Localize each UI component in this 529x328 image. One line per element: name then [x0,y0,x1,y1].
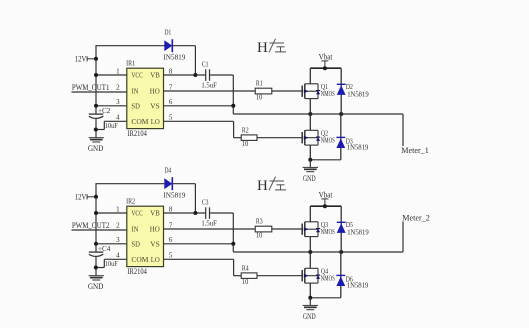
svg-text:GND: GND [88,281,104,291]
svg-text:NMOS: NMOS [321,228,335,236]
svg-text:SD: SD [131,102,140,111]
wire C3 to VS node [232,213,234,252]
label D4 value IN5819 [163,191,185,200]
diode D3 schottky low [336,114,345,160]
pin names IR1 [131,71,160,126]
svg-text:1N5819: 1N5819 [347,90,369,99]
node VS junction [231,242,235,246]
svg-text:R2: R2 [242,127,249,135]
label +C4 [98,244,111,253]
node output-left junction [308,250,312,254]
label Q2 NMOS [321,137,335,145]
svg-text:PWM_OUT2: PWM_OUT2 [72,220,110,230]
label D1 value IN5819 [163,53,185,62]
svg-text:1N5819: 1N5819 [347,143,369,152]
svg-text:C3: C3 [202,198,209,206]
port 12V (circuit 2) [75,191,96,201]
svg-text:IR1: IR1 [126,59,135,68]
svg-text:12V: 12V [75,191,87,201]
node SD junction [94,242,98,246]
label R1 value 10 [256,92,263,101]
title H-bridge section 1 [257,39,286,56]
svg-text:6: 6 [169,236,173,244]
wire half-bridge output node [233,113,403,115]
resistor R2 [241,135,257,141]
svg-text:Vbat: Vbat [319,53,333,62]
svg-text:IN: IN [131,87,139,96]
svg-text:6: 6 [169,98,173,106]
wire top bootstrap run to D4 [95,184,195,213]
ground GND (right, circuit 2) [303,298,318,321]
node COM/C junction [94,266,98,270]
power Vbat rail [310,67,341,69]
label D5 designator [346,221,353,229]
wire Q3 drain lead [309,206,311,222]
svg-text:2: 2 [116,221,120,229]
node 12V junction [94,57,98,61]
label IR1 part IR2104 [127,129,146,138]
wire VB pin 8 to C1 [164,74,234,76]
net label PWM_OUT2 [72,220,110,230]
svg-text:3: 3 [116,236,120,244]
svg-text:8: 8 [169,67,173,75]
label Q2 designator [321,130,329,138]
capacitor C4 plates [89,252,104,256]
wire Q1 source lead [309,99,311,114]
wire half-bridge output node [233,251,403,253]
node Vbat junction [323,66,327,70]
label Q3 designator [321,221,329,229]
label R2 value 10 [242,139,249,148]
label Q4 designator [321,268,329,276]
wire VCC pin 1 (IR2) [96,212,127,214]
label R4 value 10 [242,277,249,286]
capacitor C1 plates [206,69,210,81]
svg-text:IN5819: IN5819 [163,191,185,200]
label R1 designator [256,80,263,88]
op-amp driver IR2 IR2104 body [127,206,164,266]
svg-text:7: 7 [169,221,173,229]
node VCC junction [94,211,98,215]
svg-text:NMOS: NMOS [321,275,335,283]
svg-text:Meter_1: Meter_1 [401,146,429,155]
power Vbat rail [310,205,341,207]
node Vbat junction [323,204,327,208]
svg-text:R1: R1 [256,80,263,88]
svg-text:2: 2 [116,83,120,91]
svg-text:IR2104: IR2104 [127,267,146,276]
svg-text:VS: VS [150,102,160,111]
diode D5 schottky high [337,206,346,252]
label Q1 NMOS [321,90,335,98]
node VS junction [231,104,235,108]
label D5 value 1N5819 [347,228,369,237]
port Vbat [319,53,333,69]
label D3 designator [346,138,353,146]
svg-text:VS: VS [150,240,160,249]
svg-text:+C2: +C2 [98,106,111,115]
svg-text:4: 4 [116,114,120,122]
wire SD pin 3 [96,243,127,245]
svg-text:Vbat: Vbat [319,191,333,200]
label D1 designator [165,28,172,36]
wire VS pin 6 [164,243,234,245]
svg-text:LO: LO [151,255,161,264]
wire top bootstrap run to D1 [95,46,195,75]
wire VCC pin 1 (IR1) [96,74,127,76]
ground GND (left, circuit 2) [88,276,104,291]
pin numbers IR2 [116,205,173,259]
svg-text:VCC: VCC [131,209,143,218]
svg-text:D1: D1 [165,28,172,36]
transistor Q1 NMOS high-side [302,84,320,99]
label C1 value 1.5uF [201,81,217,90]
label C1 designator [202,60,209,68]
svg-text:+C4: +C4 [98,244,111,253]
label C3 designator [202,198,209,206]
wire SD pin 3 [96,105,127,107]
capacitor C3 plates [206,207,210,219]
svg-text:IR2: IR2 [126,197,135,206]
svg-text:H: H [257,178,268,194]
node COM/C junction [94,128,98,132]
diode D1 schottky bootstrap [164,39,172,52]
wire LO pin 5 route [164,121,242,137]
label Q1 designator [321,83,329,91]
label D2 value 1N5819 [347,90,369,99]
label D3 value 1N5819 [347,143,369,152]
label R3 value 10 [256,230,263,239]
diode D6 schottky low [336,252,345,298]
svg-text:10: 10 [256,230,263,239]
wire HO pin 7 to R1 [164,90,256,92]
wire IN pin 2 net PWM_OUT2 [72,229,127,231]
resistor R4 [241,273,257,279]
svg-text:10: 10 [256,92,263,101]
svg-text:10: 10 [242,139,249,148]
svg-text:SD: SD [131,240,140,249]
wire HO pin 7 to R3 [164,228,256,230]
label R3 designator [256,218,263,226]
label +C2 [98,106,111,115]
svg-text:Meter_2: Meter_2 [402,214,430,223]
svg-text:IR2104: IR2104 [127,129,146,138]
wire Q3 source lead [309,237,311,252]
node SD junction [94,104,98,108]
svg-text:C1: C1 [202,60,209,68]
net label PWM_OUT1 [72,82,110,92]
pin names IR2 [131,209,160,264]
svg-text:5: 5 [169,114,173,122]
resistor R3 [255,226,272,232]
node bootstrap junction [193,211,197,215]
svg-text:1N5819: 1N5819 [347,228,369,237]
svg-text:IN: IN [131,225,139,234]
svg-text:GND: GND [88,143,104,153]
wire C1 to VS node [232,75,234,114]
svg-text:10: 10 [242,277,249,286]
node output-right junction [339,250,343,254]
svg-text:NMOS: NMOS [321,90,335,98]
diode D4 schottky bootstrap [164,177,172,190]
wire 12V rail vertical (circuit 2) [95,184,97,276]
label D6 value 1N5819 [347,281,369,290]
label IR2 part IR2104 [127,267,146,276]
port 12V (circuit 1) [75,53,96,63]
label C3 value 1.5uF [201,219,217,228]
net label Meter_2 [402,214,430,223]
wire Q4 drain lead [309,252,311,268]
wire VB pin 8 to C3 [164,212,234,214]
label IR1 designator [126,59,135,68]
wire Q2 source lead [309,145,311,160]
wire COM pin 4 route [96,259,127,267]
svg-text:VCC: VCC [131,71,143,80]
label C2 value 10uF [105,121,119,130]
svg-text:R3: R3 [256,218,263,226]
svg-text:12V: 12V [75,53,87,63]
diode D2 schottky high [337,68,346,114]
wire Meter_2 stub [402,222,404,253]
svg-text:COM: COM [131,255,148,264]
node output-right junction [339,112,343,116]
ground GND (right, circuit 1) [303,160,318,183]
pin numbers IR1 [116,67,173,121]
svg-text:1N5819: 1N5819 [347,281,369,290]
wire Q4 source lead [309,283,311,298]
wire Q1 drain lead [309,68,311,84]
wire Q2 drain lead [309,114,311,130]
svg-text:NMOS: NMOS [321,137,335,145]
wire Meter_1 stub [402,114,404,146]
wire LO pin 5 route [164,259,242,275]
svg-text:HO: HO [150,87,161,96]
wire R4 to Q4 gate [257,275,302,277]
wire R2 to Q2 gate [257,137,302,139]
label R2 designator [242,127,249,135]
node output-left junction [308,112,312,116]
node source rail junction [308,158,312,162]
label C4 value 10uF [105,259,119,268]
svg-text:COM: COM [131,117,148,126]
label D4 designator [165,166,172,174]
svg-text:VB: VB [150,71,160,80]
port Vbat [319,191,333,207]
label D2 designator [346,83,353,91]
svg-text:7: 7 [169,83,173,91]
svg-text:GND: GND [303,312,316,321]
label Q4 NMOS [321,275,335,283]
node VCC junction [94,73,98,77]
wire VS pin 6 [164,105,234,107]
svg-text:10uF: 10uF [105,121,119,130]
svg-text:PWM_OUT1: PWM_OUT1 [72,82,110,92]
wire R3 to Q3 gate [272,228,303,230]
svg-text:1: 1 [116,205,120,213]
capacitor C2 plates [89,114,104,118]
op-amp driver IR1 IR2104 body [127,68,164,128]
node bootstrap junction [193,73,197,77]
svg-text:D4: D4 [165,166,172,174]
node 12V junction [94,195,98,199]
svg-text:R4: R4 [242,265,249,273]
label Q3 NMOS [321,228,335,236]
wire low-side source rail [310,297,341,299]
label IR2 designator [126,197,135,206]
svg-text:5: 5 [169,252,173,260]
title H-bridge section 2 [257,177,286,194]
svg-text:1.5uF: 1.5uF [201,81,217,90]
wire 12V rail vertical (circuit 1) [95,46,97,138]
svg-text:LO: LO [151,117,161,126]
transistor Q2 NMOS low-side [302,130,320,145]
svg-text:1: 1 [116,67,120,75]
transistor Q3 NMOS high-side [302,222,320,237]
wire low-side source rail [310,159,341,161]
wire R1 to Q1 gate [272,90,303,92]
svg-text:1.5uF: 1.5uF [201,219,217,228]
svg-text:VB: VB [150,209,160,218]
wire COM pin 4 route [96,121,127,129]
svg-text:HO: HO [150,225,161,234]
wire IN pin 2 net PWM_OUT1 [72,91,127,93]
node source rail junction [308,296,312,300]
svg-text:8: 8 [169,205,173,213]
svg-text:IN5819: IN5819 [163,53,185,62]
transistor Q4 NMOS low-side [302,268,320,283]
svg-text:10uF: 10uF [105,259,119,268]
svg-text:3: 3 [116,98,120,106]
label R4 designator [242,265,249,273]
ground GND (left, circuit 1) [88,138,104,153]
label D6 designator [346,276,353,284]
svg-text:H: H [257,40,268,56]
svg-text:4: 4 [116,252,120,260]
net label Meter_1 [401,146,429,155]
resistor R1 [255,88,272,94]
svg-text:GND: GND [303,174,316,183]
